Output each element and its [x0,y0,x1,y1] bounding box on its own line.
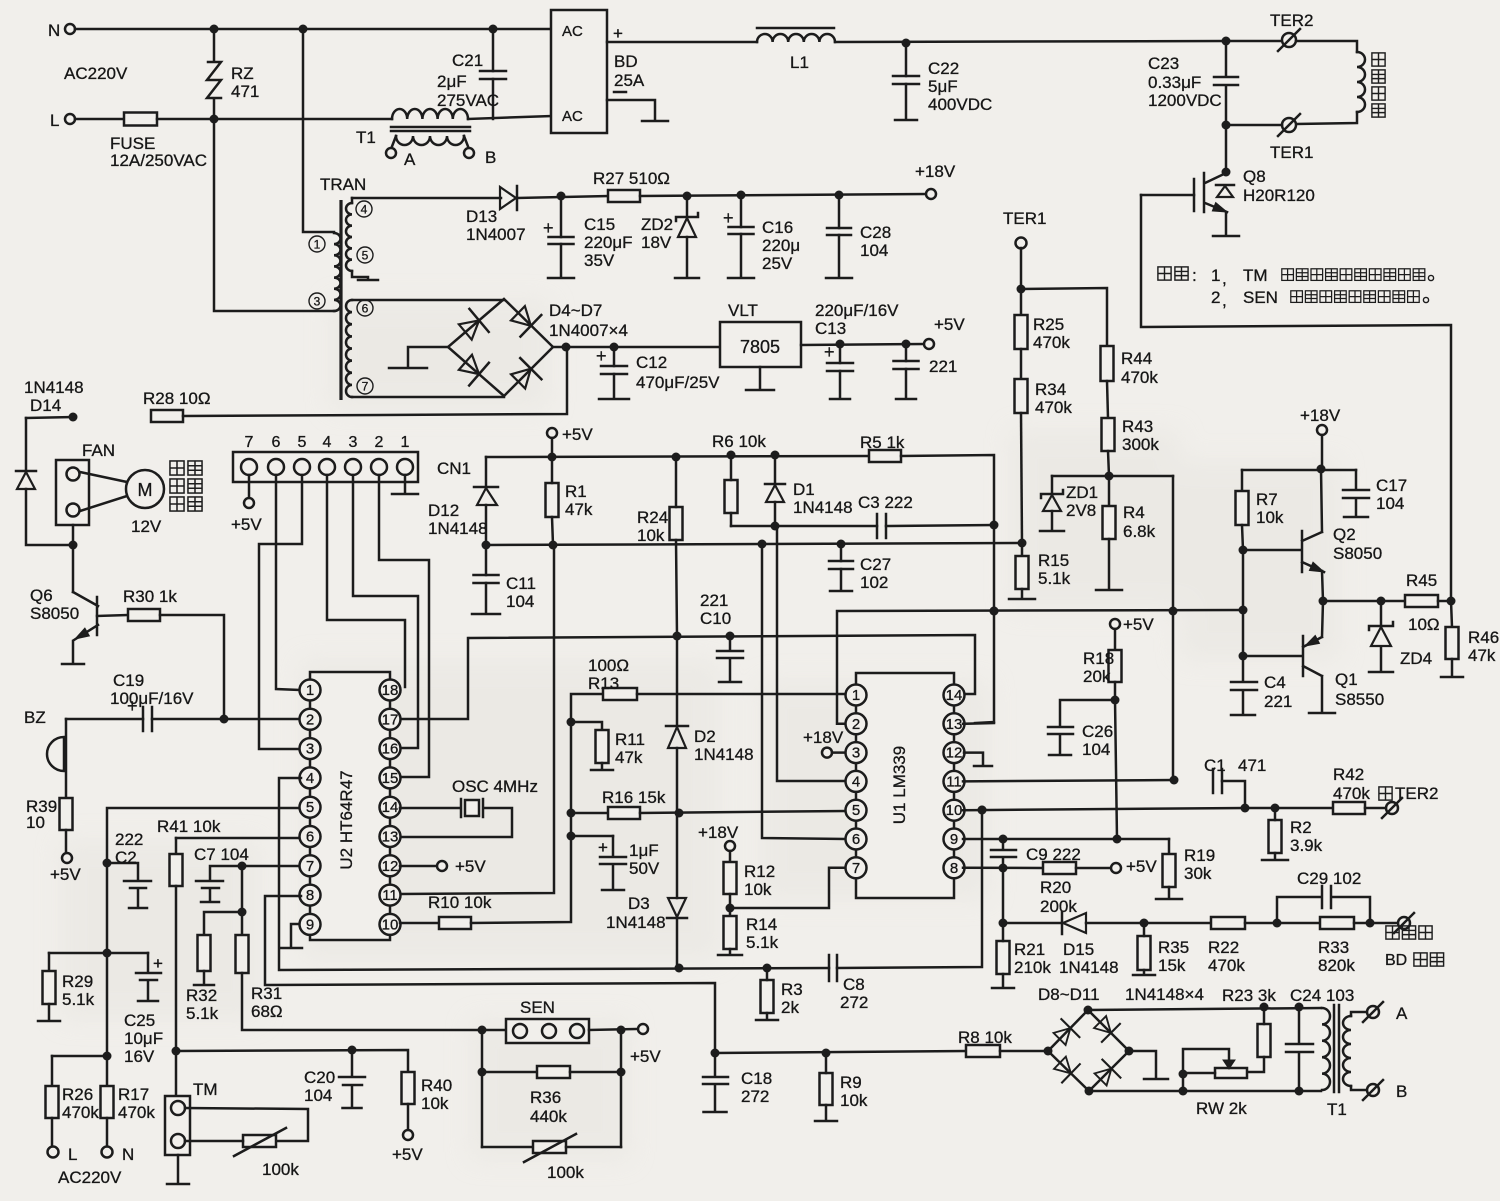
wire 7805 gnd [759,367,762,389]
terminal +5V CN1 [244,498,254,508]
capacitor C29 102 [1277,886,1370,923]
resistor R18 20k [1109,650,1122,682]
connector CN1 pin 3 circle [345,459,361,475]
junction pin9 line [999,835,1008,844]
resistor R16 15k [608,807,640,819]
capacitor C11 [485,545,488,575]
capacitor C28 [838,195,841,228]
resistor R35 15k [1138,936,1151,970]
junction RW wiper [1179,1070,1188,1079]
label shuoming line1 [1158,267,1171,280]
IC U2 pin 6 [300,826,321,847]
svg-text:R41 10k: R41 10k [157,817,221,836]
IC U1 pin 8 [944,857,965,878]
svg-text:221: 221 [1264,692,1292,711]
ground C16 [728,277,754,280]
svg-text:47k: 47k [1468,646,1496,665]
ground C27 [830,590,852,593]
wire to D15 [1003,922,1062,925]
capacitor C2 222 [107,863,151,907]
ground R11 [591,769,613,772]
wire R18 to pin9 line [1115,682,1117,839]
svg-text:275VAC: 275VAC [437,91,499,110]
wire U1 pin11 line [963,780,1174,781]
svg-text:1N4148: 1N4148 [793,498,853,517]
junction bottom line [1179,1087,1188,1096]
IC U1 pin 13 [944,713,965,734]
zener ZD2 18V [686,196,689,216]
IC U2 pin 15 [380,767,401,788]
svg-text:6: 6 [852,831,860,848]
resistor R7 10k [1236,491,1249,525]
transistor Q6 S8050 [73,592,98,663]
IC U2 HT64R47 body [310,672,390,940]
label BD positive [1386,926,1399,939]
resistor R5 1k [869,450,901,462]
junction C23 bottom [1222,121,1231,130]
IC U2 pin 7 [300,855,321,876]
capacitor C20 104 [339,1050,365,1107]
resistor R42 470k [1333,802,1365,814]
wire y545 line [486,543,1022,545]
transformer T1 bottom core [1334,1005,1339,1092]
svg-text:3: 3 [349,434,358,451]
svg-text:5.1k: 5.1k [186,1004,219,1023]
svg-text:R35: R35 [1158,938,1189,957]
svg-text:470k: 470k [1033,333,1070,352]
thermistor SEN 100k [533,1141,566,1153]
svg-text:+5V: +5V [562,425,593,444]
svg-text:220μF/16V: 220μF/16V [815,301,899,320]
ground R4 [1096,589,1122,592]
svg-text:222: 222 [115,830,143,849]
svg-text:10k: 10k [840,1091,868,1110]
svg-text:5.1k: 5.1k [1038,569,1071,588]
resistor R3 2k [761,980,774,1013]
diode D12 1N4148 [474,486,498,489]
ground C2 [129,907,147,910]
svg-text:R7: R7 [1256,490,1278,509]
resistor R40 10k [402,1072,415,1104]
svg-text:7: 7 [852,860,860,877]
wire R12 to R14 [729,894,732,916]
resistor R27 510 [608,190,640,202]
wire R29 C25 line [49,952,148,955]
svg-text:1N4148: 1N4148 [24,378,84,397]
wire N to TRAN pin1 [303,29,334,232]
wire R44-R43 [1107,381,1108,418]
svg-text:ZD4: ZD4 [1400,649,1432,668]
svg-text:471: 471 [1238,756,1266,775]
ground R32 [194,984,214,987]
transformer TRAN winding 6-7 [346,300,352,397]
capacitor C12 [613,347,616,366]
wire pin6 net x762 [762,544,845,839]
svg-text:R23 3k: R23 3k [1222,986,1276,1005]
junction y636 [673,632,682,641]
IC U2 pin 4 [300,767,321,788]
resistor R39 10 [60,798,73,830]
wire C20 R40 line [176,1050,408,1072]
svg-text:R16 15k: R16 15k [602,788,666,807]
svg-text:R36: R36 [530,1088,561,1107]
ground CN1 pin1 [392,493,418,496]
wire C1 to pin10 line [1222,781,1245,808]
svg-text:TER1: TER1 [1003,209,1046,228]
wire R4 lead [1108,476,1111,506]
wire base node to Q1 [1242,610,1245,656]
resistor R26 470k [46,1086,59,1118]
svg-text:440k: 440k [530,1107,567,1126]
svg-text:R10 10k: R10 10k [428,893,492,912]
svg-text:M: M [138,480,153,500]
terminal B of T1 [464,148,474,158]
svg-text:6: 6 [272,434,281,451]
junction dots N/L lines [210,25,219,34]
svg-text:BD: BD [1385,952,1407,969]
motor M fan [126,470,164,508]
wire Q6 collector [72,545,75,592]
connector FAN box [56,460,89,525]
wire CN1 pin5 to U2 pin3 [259,475,302,749]
svg-text:8: 8 [306,887,314,904]
svg-text:221: 221 [700,591,728,610]
svg-text:1N4148: 1N4148 [1059,958,1119,977]
fuse FUSE 12A/250VAC [124,113,157,126]
ground BD minus [642,120,668,123]
svg-text:Q8: Q8 [1243,167,1266,186]
svg-text:,: , [1222,269,1227,288]
resistor R24 10k [670,507,683,540]
svg-text:400VDC: 400VDC [928,95,992,114]
connector CN1 [233,452,418,482]
IC U2 pin 5 [300,797,321,818]
junction bridge corners [1084,1006,1093,1015]
svg-text:C3 222: C3 222 [858,493,913,512]
svg-text:5.1k: 5.1k [62,990,95,1009]
terminal +5V R40 [403,1130,413,1140]
svg-text:R12: R12 [744,862,775,881]
wire BZ line [66,718,143,721]
wire bottom rail right [837,810,982,968]
wire y636 line [470,635,975,694]
svg-text:5: 5 [306,799,314,816]
svg-text:104: 104 [304,1086,332,1105]
svg-text:200k: 200k [1040,897,1077,916]
wire R13 to U1 pin1 [637,693,845,696]
resistor R43 300k [1102,418,1115,451]
junction R23 C24 top [1260,1003,1269,1012]
wire R32 branch [204,912,242,935]
transformer T1 lower winding [396,136,464,145]
terminal A [1367,1006,1379,1018]
ground R19 [1156,898,1182,901]
wire to TER2 [1226,40,1281,43]
svg-text:1: 1 [306,682,314,699]
zener ZD1 2V8 [1051,476,1054,493]
resistor R22 470k [1211,917,1245,929]
wire R3 leads [766,968,769,980]
ground R46 [1441,676,1463,679]
wire R23 leads [1263,1007,1266,1024]
ground U2 pin9 [291,924,299,947]
terminal +5V main [924,339,934,349]
wire R7 lead top [1241,470,1244,491]
svg-text:30k: 30k [1184,864,1212,883]
capacitor C15 [560,196,563,237]
svg-text:+5V: +5V [50,865,81,884]
svg-text:C1: C1 [1204,756,1226,775]
wire R33 to terminal [1354,922,1397,925]
svg-text:C7 104: C7 104 [194,845,249,864]
svg-text:D12: D12 [428,501,459,520]
wire R46 lead [1451,601,1452,627]
wire TRAN6 to bridge [352,299,504,302]
svg-text:13: 13 [382,829,399,846]
buzzer BZ [47,737,64,771]
IC U2 pin 2 [300,709,321,730]
svg-text:BD: BD [614,52,638,71]
svg-text:R25: R25 [1033,315,1064,334]
wire R29 gnd lead [48,1004,51,1020]
svg-text:R14: R14 [746,915,777,934]
terminal +5V R18 [1110,619,1120,629]
wire TER1 to Q8 [1226,124,1282,127]
svg-text:C29 102: C29 102 [1297,869,1361,888]
IC U1 pin 4 [846,771,867,792]
ground R2 [1262,859,1288,862]
svg-text:7: 7 [306,858,314,875]
svg-text:+5V: +5V [630,1047,661,1066]
terminal TER2 [1282,33,1296,47]
wire U1 pin7 branch [730,868,845,908]
junctions 18V rail [683,192,692,201]
terminal +5V U2 pin12 [437,861,447,871]
transformer T1 bottom secondary [1343,1016,1351,1086]
svg-text:C17: C17 [1376,476,1407,495]
wire U2 pin5 long [107,808,299,1086]
junction C26 R18 [1111,696,1120,705]
capacitor C26 104 [1048,700,1115,754]
wire R10 lead [400,922,439,925]
wire TER1 down [1020,248,1023,315]
resistor R15 body [1016,556,1029,589]
IC U1 pin 10 [944,800,965,821]
svg-text:470k: 470k [118,1103,155,1122]
wire U1 pin9 line [963,838,1169,841]
svg-text:+: + [543,218,554,238]
junction x994 [990,521,999,530]
svg-text:12V: 12V [131,517,162,536]
terminal B [1367,1084,1379,1096]
capacitor C25 10uF [136,953,161,1000]
svg-text:C23: C23 [1148,54,1179,73]
ground C25 [138,1000,158,1003]
svg-text:100Ω: 100Ω [588,656,629,675]
transistor Q8 H20R120 IGBT [1194,173,1227,235]
junction R36 [478,1068,487,1077]
svg-text:9: 9 [306,916,314,933]
svg-text:220μF: 220μF [584,233,633,252]
ground ZD1 [1040,530,1064,533]
svg-text:+: + [613,24,623,43]
ground C28 [826,277,852,280]
wire TM loop bottom [185,1140,243,1143]
wire R4 to ground [1108,539,1111,589]
svg-text:+: + [723,208,734,228]
terminal +18V R12 [725,841,735,851]
svg-text:11: 11 [946,773,962,790]
wire pin10 to R42 [1245,807,1333,810]
wire 5V terminal lead [551,438,554,457]
svg-text:N: N [48,21,60,40]
svg-text:1: 1 [1211,266,1220,285]
resistor R28 10 [151,410,183,422]
wire R23 to RW [1247,1057,1264,1072]
svg-text:L: L [50,111,59,130]
junction C20 [348,1046,357,1055]
wire R32 gnd lead [203,971,206,984]
ground R21 [992,987,1014,990]
ground Q1 emitter [1309,712,1335,715]
svg-text:10k: 10k [637,526,665,545]
wire choke to bridge [468,116,551,119]
wire R11 gnd lead [601,763,604,769]
ground C4 [1231,714,1255,717]
resistor R33 820k [1320,917,1354,929]
svg-text:1N4007×4: 1N4007×4 [549,321,628,340]
svg-text:T1: T1 [1327,1100,1347,1119]
IC U1 pin 5 [846,800,867,821]
wire R16 to U1 pin5 [640,811,845,813]
ground bridge D4-D7 [389,367,427,370]
ground C13 [830,398,850,401]
ground R15 [1009,598,1035,601]
resistor R19 30k [1163,854,1176,887]
svg-text:L: L [68,1145,77,1164]
junction pin11 x1173 [1170,776,1179,785]
junction FAN D14 [69,541,78,550]
junction SEN sides [478,1026,487,1035]
ground U1 pin12 [964,753,983,765]
wire R24 bottom [676,540,677,636]
svg-text:1N4148: 1N4148 [428,519,488,538]
terminal N bottom [102,1147,113,1158]
svg-text:4: 4 [306,770,314,787]
svg-text:3: 3 [314,295,321,309]
svg-text:R11: R11 [615,730,645,749]
svg-text:2: 2 [1211,288,1220,307]
bridge D4~D7 diamond [448,299,553,396]
svg-text:C2: C2 [115,848,137,867]
svg-text:300k: 300k [1122,435,1159,454]
svg-text:N: N [122,1145,134,1164]
wire U2 pin8 long [265,896,715,1053]
diode D14 [25,418,28,471]
resistor R23 3k [1258,1024,1271,1057]
svg-text:15: 15 [382,770,399,787]
svg-text:1: 1 [401,434,410,451]
resistor R9 10k [820,1073,833,1105]
svg-text:SEN: SEN [520,998,555,1017]
svg-text:R19: R19 [1184,846,1215,865]
wire Q output to R45 [1323,600,1405,603]
transistor Q1 S8550 [1243,601,1323,712]
wire R1 lead top [551,457,554,483]
svg-text:5μF: 5μF [928,77,958,96]
svg-text:1N4148×4: 1N4148×4 [1125,985,1204,1004]
svg-text:17: 17 [382,711,399,728]
terminal TER1 top [1282,118,1296,132]
svg-text:68Ω: 68Ω [251,1002,283,1021]
svg-text:+18V: +18V [803,728,844,747]
svg-text:470k: 470k [62,1103,99,1122]
wire R46 gnd lead [1451,659,1454,676]
wire bridge right gnd [1129,1051,1156,1078]
junction R9 [822,1049,831,1058]
junction Q2 collector node [1317,465,1326,474]
resistor R21 210k [997,941,1010,974]
IC U1 LM339 body [856,673,954,898]
svg-text:220μ: 220μ [762,236,800,255]
svg-text:U1 LM339: U1 LM339 [890,746,909,824]
wire D1 node line y526 [731,525,877,528]
IC U2 pin 17 [380,709,401,730]
capacitor C1 471 [1212,769,1215,793]
connector CN1 pin 5 circle [294,459,310,475]
resistor R4 6.8k [1103,506,1116,539]
svg-text:272: 272 [741,1087,769,1106]
svg-text:OSC 4MHz: OSC 4MHz [452,777,538,796]
wire C9 down to D15 line [1002,868,1005,923]
diode D1 1N4148 [765,455,785,484]
terminal A of T1 [386,148,396,158]
svg-text:+18V: +18V [698,823,739,842]
svg-text:C18: C18 [741,1069,772,1088]
resistor R45 10 [1405,595,1438,607]
wire R21 gnd [1002,974,1005,987]
svg-text:BZ: BZ [24,708,46,727]
svg-text:Q1: Q1 [1335,670,1358,689]
wire thermistor SEN right [566,1146,621,1149]
svg-text:AC: AC [562,23,583,40]
svg-text:12: 12 [946,745,963,762]
wire R41 lead [175,838,178,854]
label TRAN pin 7 [357,378,373,394]
crystal OSC 4MHz [400,799,512,837]
svg-text:R45: R45 [1406,571,1437,590]
IC U1 pin 11 [944,771,965,792]
junction D1 y526 [771,522,780,531]
svg-text:C26: C26 [1082,722,1113,741]
ground bridge D8-D11 [1144,1078,1168,1081]
svg-text:R24: R24 [637,508,668,527]
wire D1 to U1 pin4 [775,526,845,781]
svg-text:Q6: Q6 [30,586,53,605]
wire CN1 pin2 to U2 pin15 [379,475,429,777]
svg-text:3.9k: 3.9k [1290,836,1323,855]
wire R3 gnd [766,1013,769,1019]
ground C15 [548,277,574,280]
resistor R36 440k [537,1066,570,1078]
capacitor 221 [905,344,908,361]
svg-text:25V: 25V [762,254,793,273]
terminal +5V SEN [638,1024,648,1034]
connector CN1 pin 6 circle [268,459,284,475]
wire R26 lead [51,1056,54,1086]
wire R25-R34 [1020,349,1023,379]
ground cap 221 [896,398,916,401]
